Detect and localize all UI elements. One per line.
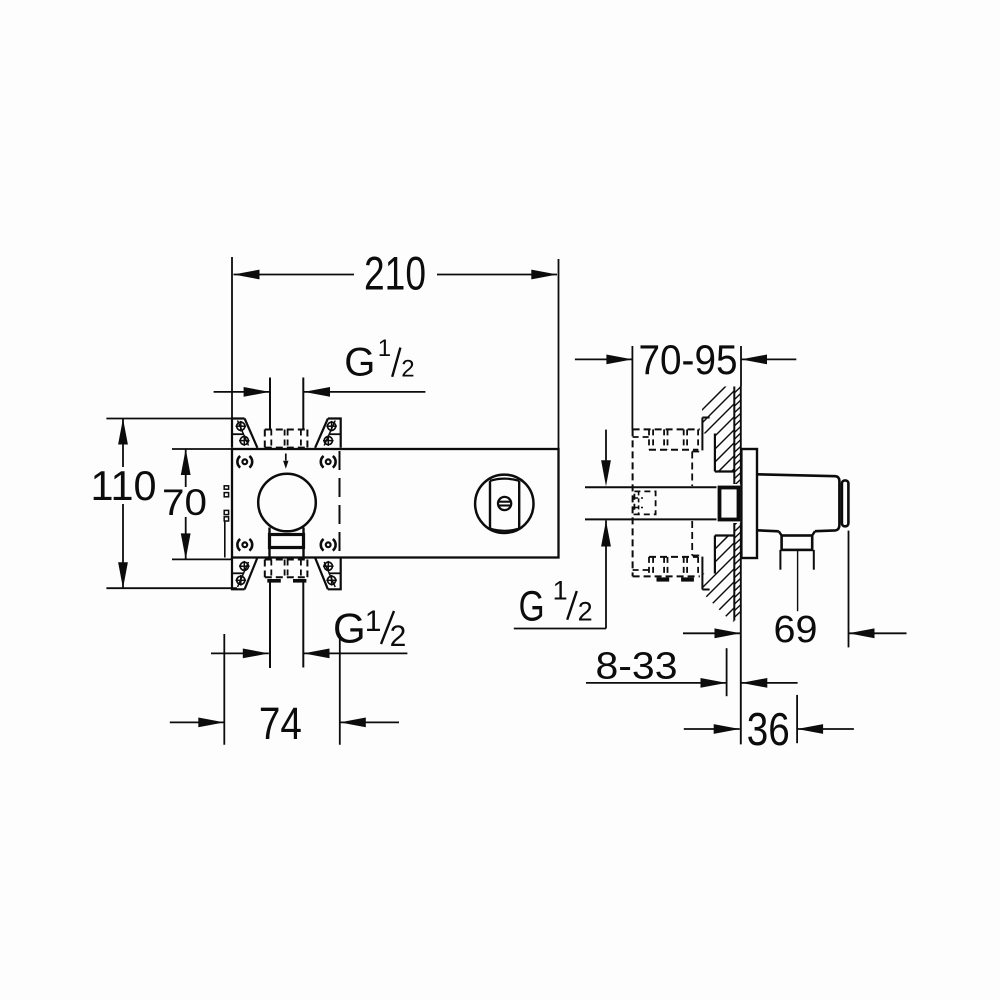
dimension G1/2 bottom [211, 605, 407, 659]
outlet centerline [797, 551, 799, 611]
top supply pipe [270, 378, 303, 430]
corner screw top-right [321, 456, 336, 468]
corner screw bottom-right [321, 539, 336, 551]
svg-text:2: 2 [390, 620, 407, 653]
concealed body (hidden lines) [633, 429, 703, 576]
svg-text:G: G [344, 341, 375, 385]
sleeve section upper [702, 418, 734, 472]
nut end marks [657, 577, 694, 581]
tile layer band [734, 387, 741, 621]
flow arrow marker [283, 454, 288, 469]
svg-text:8-33: 8-33 [596, 645, 678, 687]
pipe line upper [585, 486, 720, 488]
svg-text:70-95: 70-95 [639, 336, 738, 383]
svg-text:1: 1 [365, 605, 382, 638]
svg-text:36: 36 [747, 703, 790, 755]
svg-text:2: 2 [401, 356, 414, 383]
svg-text:74: 74 [259, 698, 302, 749]
svg-text:2: 2 [578, 596, 593, 626]
svg-text:1: 1 [553, 575, 568, 605]
dimension 210 [232, 247, 559, 450]
svg-text:69: 69 [774, 609, 818, 651]
dimension 74 [170, 634, 399, 749]
sleeve section lower [702, 536, 734, 590]
bottom union nut (hidden) [265, 560, 308, 578]
dimension G1/2 top [214, 335, 426, 397]
dimension 8-33 [586, 645, 798, 696]
partition hidden line [339, 451, 341, 557]
wall hatch (rough) [695, 378, 741, 625]
mounting box outline [232, 449, 559, 558]
supply duct square [717, 484, 743, 523]
bottom mounting plate left [232, 558, 257, 590]
svg-text:G: G [519, 582, 545, 630]
top union nut (hidden) [265, 430, 308, 448]
shower outlet elbow [757, 474, 848, 569]
wall face line [740, 386, 742, 744]
dimension 70 [162, 449, 232, 559]
bottom mounting plate right [315, 558, 341, 590]
dimension 69 [683, 531, 907, 651]
dimension 36 [684, 695, 854, 755]
svg-text:1: 1 [378, 335, 391, 362]
bottom supply pipe [270, 582, 303, 668]
escutcheon plate [741, 449, 757, 558]
union nut ends [267, 579, 306, 583]
corner screw bottom-left [237, 539, 252, 551]
label G1/2 side [514, 575, 606, 630]
pipe spacing arrows [601, 430, 611, 629]
valve circle [258, 474, 316, 532]
top mounting plate right [315, 419, 341, 448]
dimension 110 [91, 419, 238, 589]
top mounting plate left [232, 419, 257, 448]
plug valve right [475, 475, 533, 533]
svg-text:110: 110 [91, 462, 157, 509]
corner screw top-left [237, 456, 252, 468]
svg-text:70: 70 [162, 482, 207, 523]
dimension 70-95 [575, 336, 796, 430]
side clip [224, 486, 228, 558]
svg-text:210: 210 [364, 247, 426, 300]
valve outlet nut [270, 528, 304, 559]
pipe line lower [585, 518, 720, 520]
svg-text:G: G [333, 605, 366, 652]
